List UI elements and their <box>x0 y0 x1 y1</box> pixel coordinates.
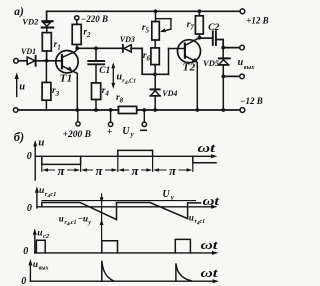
node Uy minus <box>142 108 146 112</box>
row1 pi dimension arrows <box>42 168 192 171</box>
diode VD2 <box>22 17 53 33</box>
svg-text:ωt: ωt <box>198 141 216 155</box>
svg-text:0: 0 <box>27 203 32 214</box>
svg-text:3: 3 <box>55 90 60 98</box>
svg-text:0: 0 <box>23 246 28 257</box>
node output top <box>221 46 225 50</box>
svg-text:7: 7 <box>190 24 194 32</box>
row3 pulse 3 <box>175 239 190 253</box>
row2 sawtooth wave <box>42 203 201 220</box>
resistor R4 <box>92 83 110 110</box>
svg-text:u: u <box>39 186 44 196</box>
label Uy <box>122 126 134 139</box>
svg-text:VD1: VD1 <box>21 47 36 56</box>
svg-text:5: 5 <box>146 27 150 35</box>
diode VD1 <box>18 47 46 66</box>
svg-text:T1: T1 <box>60 73 73 85</box>
resistor R8 in rail <box>116 93 137 114</box>
svg-text:+: + <box>107 128 112 138</box>
terminal uout top <box>240 45 245 50</box>
node base T1 <box>45 59 49 63</box>
terminal +200V <box>63 110 91 140</box>
svg-text:VD4: VD4 <box>162 89 177 98</box>
wire to terminal uout top <box>223 47 240 49</box>
row1 square wave <box>42 156 81 164</box>
svg-text:ωt: ωt <box>201 238 219 252</box>
svg-text:C2: C2 <box>208 23 219 33</box>
row3 pulse 2 <box>102 241 118 253</box>
capacitor C1 <box>88 48 110 83</box>
resistor R3 <box>42 61 60 110</box>
resistor R6 <box>143 40 159 74</box>
svg-text:0: 0 <box>27 151 32 162</box>
svg-text:+12 В: +12 В <box>246 15 268 25</box>
node output bottom <box>221 75 225 79</box>
svg-text:π: π <box>132 163 140 178</box>
node T2 emitter <box>195 108 199 112</box>
svg-text:π: π <box>169 163 177 178</box>
svg-text:0: 0 <box>21 276 26 286</box>
svg-text:u: u <box>59 214 64 224</box>
terminal uout bottom <box>240 74 245 79</box>
row2 label u_r4c1 - u_y <box>59 214 92 228</box>
node r7 bottom <box>198 36 202 40</box>
svg-text:π: π <box>96 163 104 178</box>
row4 spike 2 <box>176 263 192 281</box>
transistor T2 <box>169 38 201 110</box>
label a) <box>14 6 24 18</box>
svg-text:8: 8 <box>120 97 124 105</box>
svg-text:ωt: ωt <box>201 266 219 280</box>
svg-text:1: 1 <box>57 44 61 52</box>
node VD4 bottom <box>153 108 157 112</box>
row2 label u_r4c1 right <box>189 213 205 227</box>
capacitor C2 <box>199 23 223 48</box>
svg-text:VD2: VD2 <box>22 17 39 27</box>
row2 marker line with arrows <box>100 194 104 240</box>
svg-text:c1: c1 <box>200 219 206 225</box>
node r6/VD4 <box>153 72 157 76</box>
terminal +12V <box>240 9 269 25</box>
node Uy plus <box>109 108 113 112</box>
svg-text:u: u <box>38 137 44 149</box>
svg-text:U: U <box>122 126 130 137</box>
node T1 collector <box>75 46 79 50</box>
label b) <box>14 130 24 144</box>
terminal input bottom <box>13 108 18 113</box>
terminal Uy plus <box>107 110 113 138</box>
resistor R7 <box>187 11 204 37</box>
svg-text:T2: T2 <box>183 61 196 73</box>
diode VD5 <box>203 48 230 77</box>
diode VD3 <box>120 35 142 52</box>
terminal -12V <box>240 96 263 112</box>
row4 spike 1 <box>102 261 114 281</box>
svg-text:вых: вых <box>39 266 49 272</box>
terminal -220V <box>75 14 108 24</box>
svg-text:U: U <box>162 189 170 200</box>
resistor R1 <box>42 33 60 52</box>
label u_out <box>238 57 256 71</box>
wire to terminal uout bottom <box>223 75 239 77</box>
svg-text:−u: −u <box>78 214 88 224</box>
wire VD5 to bottom rail <box>222 76 224 110</box>
row2 axis u_r4c1 <box>27 186 220 214</box>
node r4 bottom <box>94 108 98 112</box>
terminal input top <box>14 59 19 64</box>
svg-text:вых: вых <box>244 64 255 71</box>
row1 pi interval ticks <box>42 156 193 171</box>
svg-text:C1: C1 <box>99 66 110 76</box>
svg-text:2: 2 <box>86 31 91 39</box>
svg-text:,c1: ,c1 <box>68 220 76 226</box>
wire bottom rail right <box>137 109 240 111</box>
row2 Uy level line <box>42 200 195 202</box>
transistor T1 <box>56 49 78 110</box>
svg-text:u: u <box>33 260 38 270</box>
svg-text:π: π <box>58 163 66 178</box>
wire collector line <box>77 47 123 49</box>
svg-text:4: 4 <box>104 90 109 98</box>
input arrow u <box>15 72 26 96</box>
svg-text:+200 В: +200 В <box>63 130 91 140</box>
svg-text:u: u <box>189 213 194 223</box>
row1 pi labels <box>58 163 178 178</box>
row4 axis u_out <box>21 259 219 286</box>
svg-text:6: 6 <box>147 55 151 63</box>
svg-text:−220 В: −220 В <box>81 14 108 24</box>
svg-text:,C1: ,C1 <box>127 79 137 85</box>
svg-text:u: u <box>37 229 42 239</box>
row2 label Uy <box>162 189 174 202</box>
svg-text:u: u <box>19 81 25 92</box>
svg-text:б): б) <box>14 130 24 144</box>
row3 axis u_c2 <box>23 228 218 257</box>
row1 axis u <box>27 137 218 180</box>
svg-text:VD5: VD5 <box>203 58 220 68</box>
svg-text:ωt: ωt <box>203 194 220 208</box>
wire node to T1 base <box>47 60 62 62</box>
node r7 rail <box>198 9 202 13</box>
svg-text:c1: c1 <box>50 191 56 198</box>
wire VD2 to rail <box>46 11 48 20</box>
row3 pulse 1 <box>36 240 45 253</box>
node r5 top rail <box>154 9 158 13</box>
wire top rail +12V <box>47 10 240 12</box>
wire VD3 to base node T2 <box>142 48 168 74</box>
diode VD4 <box>150 74 177 110</box>
resistor R5 adjustable <box>142 11 171 40</box>
wire bottom rail left <box>18 109 118 111</box>
svg-text:у: у <box>87 220 91 226</box>
arrow u_r4C1 <box>111 62 136 89</box>
node C1 top <box>94 46 98 50</box>
terminal Uy minus <box>141 110 147 130</box>
svg-text:−12 В: −12 В <box>240 96 263 106</box>
node +200V <box>75 108 79 112</box>
svg-text:c2: c2 <box>43 233 50 240</box>
wire r1 to input node <box>46 51 48 61</box>
svg-text:VD3: VD3 <box>120 35 135 44</box>
svg-text:u: u <box>238 57 244 68</box>
resistor R2 <box>72 20 91 48</box>
